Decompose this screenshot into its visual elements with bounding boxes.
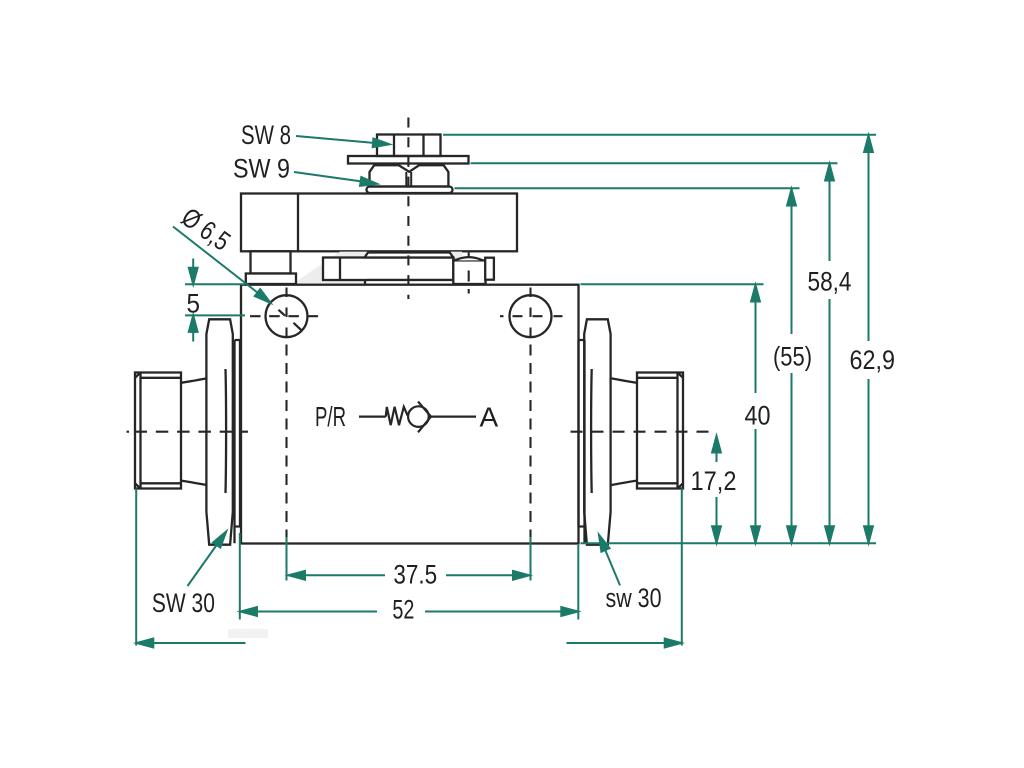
text 37.5 <box>385 559 446 589</box>
svg-text:Ø 6,5: Ø 6,5 <box>176 202 236 257</box>
overall width right extension line <box>681 489 683 646</box>
valve left line <box>359 416 386 418</box>
middle adapter plate <box>323 258 453 281</box>
main vertical centerline through bolt <box>407 118 409 300</box>
bolt head SW8 <box>377 135 441 157</box>
svg-text:52: 52 <box>392 595 414 625</box>
bottom baseline extension line <box>581 542 877 544</box>
left foot under block <box>251 251 291 273</box>
left hole horizontal centerline <box>250 315 319 317</box>
dim 17,2 line with arrows <box>712 436 721 543</box>
right fitting neck <box>612 378 638 485</box>
overall width right arrow <box>567 639 682 648</box>
left foot base plate <box>246 274 296 285</box>
dim 5 top arrow <box>189 259 198 285</box>
dim 58,4 line with arrows <box>825 164 834 543</box>
dim 52 right extension line <box>577 545 579 620</box>
right sealing washer <box>579 340 585 543</box>
svg-text:40: 40 <box>745 401 771 431</box>
svg-text:(55): (55) <box>773 342 812 372</box>
valve spring <box>386 407 408 425</box>
leader diameter 6,5 <box>173 227 273 307</box>
washer plate under bolt head <box>348 156 469 164</box>
text 62,9 <box>845 341 901 379</box>
valve body <box>241 285 579 544</box>
dim 62,9 line with arrows <box>864 136 873 543</box>
left mounting hole <box>266 295 308 337</box>
text 40 <box>741 393 775 431</box>
dim 40 line with arrows <box>751 285 760 543</box>
right port fitting hex sw30 <box>584 319 610 544</box>
right hole horizontal centerline <box>500 315 563 317</box>
dim (55) line with arrows <box>787 189 796 543</box>
text 52 <box>377 595 425 625</box>
svg-text:5: 5 <box>187 288 201 318</box>
dim 5 bottom arrow <box>189 315 198 341</box>
text (55) <box>767 334 817 373</box>
leader SW8 <box>296 136 390 149</box>
svg-text:SW 9: SW 9 <box>233 153 290 183</box>
svg-text:SW 30: SW 30 <box>152 588 215 618</box>
svg-text:sw 30: sw 30 <box>606 583 662 613</box>
washer under locknut <box>367 187 453 194</box>
dim 37.5 right extension line <box>530 537 532 581</box>
dim 37.5 line with arrows <box>289 571 530 580</box>
diagonal slash in left hole <box>279 310 302 331</box>
right small block centerline <box>468 253 470 294</box>
dim 52 left extension line <box>239 533 241 620</box>
svg-text:37.5: 37.5 <box>393 559 437 589</box>
valve seat V <box>418 402 431 433</box>
right small block with dome <box>453 257 494 284</box>
left fitting neck <box>181 378 207 485</box>
dim 58,4 top extension line <box>471 162 838 164</box>
adapter bottom lip <box>365 280 486 285</box>
left port fitting: threaded plug <box>135 373 181 489</box>
overall width left extension line <box>135 489 137 646</box>
dim 5 extension lines <box>185 283 245 285</box>
locknut SW9 <box>370 165 449 186</box>
left sealing washer <box>235 340 241 543</box>
solenoid block <box>241 194 517 252</box>
text 17,2 <box>687 462 741 497</box>
svg-text:62,9: 62,9 <box>850 345 896 375</box>
svg-text:A: A <box>480 401 499 432</box>
left fitting hex SW30 <box>206 319 232 544</box>
text 58,4 <box>803 261 856 299</box>
svg-text:58,4: 58,4 <box>808 267 852 297</box>
dim 52 line with arrows <box>241 607 578 616</box>
svg-text:P/R: P/R <box>315 401 346 432</box>
svg-text:SW 8: SW 8 <box>241 120 291 150</box>
leader sw30 <box>595 533 620 585</box>
leader SW30 <box>188 529 230 586</box>
valve ball <box>408 406 429 427</box>
right mounting hole <box>510 295 552 337</box>
dim 62,9 top extension line <box>443 134 876 136</box>
faint watermark streak <box>228 629 268 638</box>
svg-text:17,2: 17,2 <box>691 466 737 496</box>
leader SW9 <box>294 172 378 188</box>
right fitting threaded end <box>637 373 683 489</box>
valve right line <box>431 416 476 418</box>
left port horizontal centerline <box>127 431 130 433</box>
adapter top lip <box>365 253 454 258</box>
left hole vertical centerline <box>285 288 287 338</box>
right port horizontal centerline <box>571 431 712 433</box>
watermark shading wedge <box>293 252 462 284</box>
overall width left arrow <box>137 639 246 648</box>
right hole vertical centerline <box>529 288 531 338</box>
dim (55) top extension line <box>455 187 800 189</box>
dim 40 top extension line <box>581 283 764 285</box>
dim 37.5 left extension line <box>286 537 288 581</box>
